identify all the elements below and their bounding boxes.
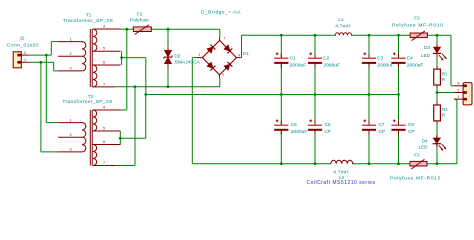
svg-text:D3: D3 <box>424 45 430 50</box>
svg-text:C8: C8 <box>408 122 414 127</box>
svg-text:3: 3 <box>457 82 459 86</box>
svg-text:C6: C6 <box>291 122 297 127</box>
svg-text:Transformer_SP_2S: Transformer_SP_2S <box>62 99 113 105</box>
svg-text:F1: F1 <box>137 12 143 17</box>
svg-text:CP: CP <box>379 129 385 134</box>
svg-text:Conn_01x02: Conn_01x02 <box>7 43 39 49</box>
svg-text:2: 2 <box>24 51 26 55</box>
svg-text:LED: LED <box>421 53 431 58</box>
svg-text:4: 4 <box>103 105 105 109</box>
svg-text:5: 5 <box>103 47 105 51</box>
svg-text:L1: L1 <box>338 17 344 22</box>
svg-text:J2: J2 <box>19 36 24 41</box>
svg-text:D_Bridge_+-AA: D_Bridge_+-AA <box>201 9 241 15</box>
svg-text:Polyfuse MF-R010: Polyfuse MF-R010 <box>392 23 444 29</box>
svg-text:4.7mH: 4.7mH <box>335 24 351 30</box>
svg-text:3: 3 <box>69 148 71 152</box>
svg-text:5: 5 <box>103 126 105 130</box>
svg-text:Polyfuse: Polyfuse <box>130 18 149 24</box>
svg-text:CoilCraft MS51210 series: CoilCraft MS51210 series <box>307 180 376 186</box>
svg-text:R2: R2 <box>442 107 448 112</box>
svg-text:Polyfuse MF-R010: Polyfuse MF-R010 <box>390 175 441 181</box>
svg-text:3: 3 <box>69 67 71 71</box>
svg-text:2000uF: 2000uF <box>290 63 307 69</box>
svg-text:2: 2 <box>457 88 459 92</box>
svg-text:4: 4 <box>103 24 105 28</box>
svg-text:C2: C2 <box>323 56 329 61</box>
svg-text:C4: C4 <box>407 56 413 61</box>
svg-text:D1: D1 <box>243 51 249 56</box>
svg-text:7: 7 <box>103 82 105 86</box>
svg-text:D2: D2 <box>174 54 180 59</box>
svg-text:CP: CP <box>325 129 331 134</box>
svg-text:4: 4 <box>238 53 240 57</box>
svg-text:Transformer_SP_2S: Transformer_SP_2S <box>63 18 114 24</box>
svg-text:6: 6 <box>103 140 105 144</box>
svg-text:C1: C1 <box>290 56 296 61</box>
svg-text:1: 1 <box>457 95 459 99</box>
svg-text:2: 2 <box>69 52 71 56</box>
svg-text:F2: F2 <box>414 16 420 21</box>
svg-text:T2: T2 <box>88 94 94 99</box>
svg-text:2: 2 <box>198 53 200 57</box>
svg-text:2000uF: 2000uF <box>323 63 340 69</box>
svg-text:C3: C3 <box>377 56 383 61</box>
svg-text:2000uF: 2000uF <box>291 129 308 135</box>
svg-text:1: 1 <box>24 58 26 62</box>
svg-text:CP: CP <box>408 129 414 134</box>
svg-text:LED: LED <box>418 145 428 150</box>
svg-text:3: 3 <box>222 73 224 77</box>
svg-text:F3: F3 <box>414 153 420 158</box>
svg-text:1: 1 <box>69 37 71 41</box>
svg-text:C5: C5 <box>325 122 331 127</box>
svg-text:2000uF: 2000uF <box>407 63 424 69</box>
svg-text:1: 1 <box>223 36 225 40</box>
svg-text:2: 2 <box>69 133 71 137</box>
svg-text:1: 1 <box>69 118 71 122</box>
svg-text:C7: C7 <box>379 122 385 127</box>
svg-text:SMAJ43CA: SMAJ43CA <box>175 59 201 65</box>
svg-text:T1: T1 <box>86 13 92 18</box>
svg-text:D4: D4 <box>422 139 428 144</box>
svg-text:7: 7 <box>103 161 105 165</box>
svg-text:6: 6 <box>103 60 105 64</box>
